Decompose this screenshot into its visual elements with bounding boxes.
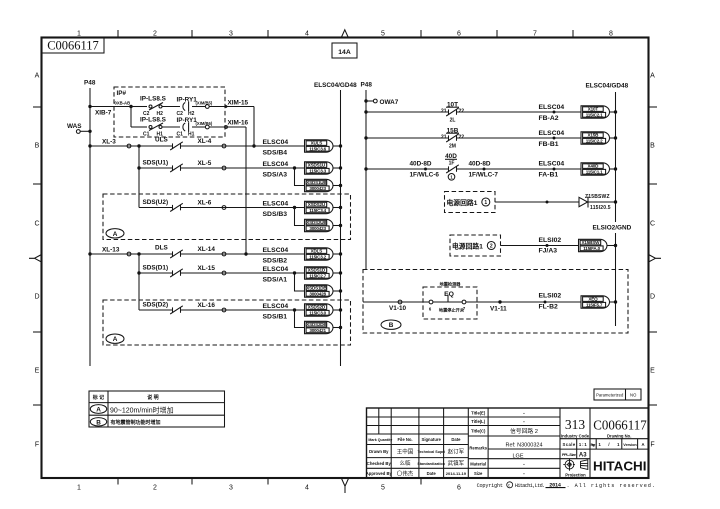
svg-text:XSDS2D: XSDS2D [308,305,326,310]
svg-text:IP-LS8.S: IP-LS8.S [140,96,167,103]
svg-text:5: 5 [381,31,385,38]
svg-text:ELSC04: ELSC04 [539,130,565,137]
svg-text:B: B [389,322,394,329]
svg-text:XULS: XULS [311,141,323,146]
svg-text:(XIM/B5): (XIM/B5) [196,101,213,106]
svg-text:ELSC04: ELSC04 [263,303,289,310]
svg-text:4: 4 [305,485,309,492]
svg-text:22: 22 [459,135,465,141]
wire flag XSDS1DB to bus [333,290,341,292]
wire junction column upper [138,146,140,208]
wire row SDS(U2)c [139,207,173,209]
svg-text:SDS(D2): SDS(D2) [143,302,169,309]
svg-text:SDS(U1): SDS(U1) [143,160,169,167]
connector flag XSDS2UB [305,219,333,231]
svg-text:0XB-AB: 0XB-AB [115,101,131,106]
svg-text:115IC2.2: 115IC2.2 [586,138,603,143]
svg-text:E: E [35,368,40,375]
wire flag XSDS1D to bus [333,272,341,274]
signatures [397,448,465,478]
svg-text:File No.: File No. [397,437,412,442]
title block revision header [368,437,461,442]
svg-text:3000423: 3000423 [309,226,326,231]
svg-text:Ref: N3000324: Ref: N3000324 [506,443,543,449]
svg-text:Drawing No.: Drawing No. [607,433,631,438]
svg-text:SDS/B4: SDS/B4 [263,150,288,157]
svg-text:14A: 14A [338,49,351,56]
column numbers bottom [77,485,461,492]
node label point 40D [553,168,556,171]
svg-text:Z15BSWZ: Z15BSWZ [585,194,610,200]
title block labels column [469,411,487,477]
contact EQ left [429,300,433,311]
svg-text:2: 2 [153,31,157,38]
dashed option box A (lower) [103,300,351,345]
svg-text:XL-15: XL-15 [198,265,216,272]
svg-text:FB-A2: FB-A2 [539,115,559,122]
centering marker right [649,255,662,263]
svg-text:2M: 2M [449,144,456,150]
svg-text:C0066117: C0066117 [47,39,99,53]
node row 15B at P48 [364,136,367,139]
svg-text:XL-5: XL-5 [198,160,212,167]
svg-text:Remarks: Remarks [469,446,487,451]
row letters left [34,73,39,449]
svg-text:C1: C1 [143,131,150,137]
svg-text:2L: 2L [450,118,456,124]
contact SDS(U1)c [172,165,174,170]
svg-text:XSDS1UB: XSDS1UB [306,180,327,185]
svg-text:电源回路1: 电源回路1 [447,198,478,207]
svg-text:5: 5 [381,485,385,492]
svg-text:6: 6 [457,485,461,492]
contact 10T with pins 21/22 [441,102,464,124]
svg-text:Date: Date [451,437,461,442]
svg-text:地震停止开关: 地震停止开关 [439,307,465,314]
node XIM-15 to ULS row [252,144,255,147]
svg-text:XIM-16: XIM-16 [228,119,249,126]
contact SDS(D2)c [172,307,174,312]
wire flag X40D to bus [610,168,616,170]
connector flag XSDS1UB [305,179,333,191]
option marker oval B [381,320,401,329]
copyright line [477,482,655,489]
svg-text:1: 1 [484,200,487,206]
svg-text:IP-RY1: IP-RY1 [177,97,198,104]
svg-text:XEQ: XEQ [588,297,598,302]
sheet border frame [42,38,649,479]
svg-text:7: 7 [533,31,537,38]
contact 40D 1F [445,153,459,173]
svg-text:Scale: Scale [563,442,576,447]
node IP box edge row1 [225,105,228,108]
svg-text:115IC3.2: 115IC3.2 [309,254,326,259]
node P48/XL-13 [88,252,91,255]
legend table [89,391,225,427]
legend row B marker [90,418,106,427]
svg-text:115IC2.7: 115IC2.7 [309,273,326,278]
svg-text:SDS/B1: SDS/B1 [263,314,288,321]
svg-text:X15BSW: X15BSW [582,240,601,245]
svg-text:ELSC04/GD48: ELSC04/GD48 [314,82,357,89]
svg-text:ELSC04: ELSC04 [263,139,289,146]
connector flag X10T [581,106,609,118]
svg-text:40D-8D: 40D-8D [469,161,491,168]
coil IP-RY1 lower (C1-H1) [177,117,198,137]
connector flag XDLS [305,248,334,260]
svg-text:Quantity: Quantity [378,438,393,442]
frame tick marks bottom [118,478,421,485]
wire flag XSDS2U to bus [333,207,341,209]
node WAS junction [88,130,91,133]
wire branch to XSDS2DB [295,310,305,328]
dashed option box B (earthquake circuit) [363,270,628,334]
svg-text:1: 1 [77,31,81,38]
diode Z15BSWZ [579,197,616,208]
wire row SDS(D2)c [139,309,173,311]
terminal XIM-15 [205,105,209,109]
svg-text:Copyright: Copyright [477,483,503,489]
frame tick marks top [118,30,573,38]
node label point 10T [553,111,556,114]
svg-text:标 记: 标 记 [92,394,104,401]
parameterized flag box [594,389,641,400]
svg-text:Size: Size [474,471,483,476]
svg-text:ELSI02: ELSI02 [539,293,562,300]
svg-text:Projection: Projection [565,472,586,477]
connector flag XSDS1DB [305,285,333,297]
svg-text:IP#: IP# [117,90,127,97]
svg-text:B: B [650,143,655,150]
svg-text:XSDS1D: XSDS1D [308,268,326,273]
wire XIM-15 drop [253,107,255,147]
wire row SDS(U1)c [139,167,173,169]
wire WAS to P48 [80,130,90,132]
title block values [506,411,543,478]
svg-text:C0066117: C0066117 [593,419,646,434]
connector flag XULS [305,140,333,152]
svg-text:C2: C2 [177,111,184,117]
svg-text:FL-B2: FL-B2 [539,304,558,311]
wire row 10T [366,111,449,113]
svg-text:A: A [35,73,40,80]
svg-text:V1-11: V1-11 [490,306,507,313]
title block grid [367,408,649,478]
node label point 15B [553,137,556,140]
svg-text:XSDS2DB: XSDS2DB [306,322,327,327]
svg-text:4: 4 [305,31,309,38]
wire branch to XSDS1DB [295,273,305,291]
svg-text:A: A [113,231,118,238]
circled ref 2 [487,242,495,250]
svg-text:Technical Suprt: Technical Suprt [418,450,446,454]
svg-text:Checked By: Checked By [367,461,392,466]
connector flag X15BSW [579,239,607,251]
svg-text:SDS(U2): SDS(U2) [143,199,169,206]
svg-text:XIM-15: XIM-15 [228,100,249,107]
svg-text:Drawn By: Drawn By [369,449,389,454]
svg-text:D: D [650,294,655,301]
svg-text:Mark: Mark [368,438,376,442]
wire IP row2 [131,126,147,128]
node row 10T at P48 [364,110,367,113]
svg-text:XIB-7: XIB-7 [95,110,112,117]
svg-text:Standardization: Standardization [417,462,445,466]
svg-text:SDS/B2: SDS/B2 [263,258,288,265]
svg-text:115IC3.0: 115IC3.0 [309,310,326,315]
scale page version row [563,442,645,447]
svg-text:2014-11-19: 2014-11-19 [446,471,467,476]
svg-text:ELSC04: ELSC04 [263,200,289,207]
sheet code box 14A [332,43,357,58]
node V1-11 [490,300,507,312]
wire IP row1 [131,106,147,108]
svg-text:22: 22 [459,109,465,115]
drawing number C0066117 [593,419,646,439]
svg-text:SDS/B3: SDS/B3 [263,211,288,218]
svg-text:ELSC04: ELSC04 [263,247,289,254]
svg-text:Approved By: Approved By [366,471,393,476]
svg-text:P48: P48 [361,82,373,89]
svg-text:V1-10: V1-10 [389,305,406,312]
wire row 40D [366,168,449,170]
svg-text:1:1: 1:1 [579,442,587,447]
wire branch to XSDS1UB [295,168,305,186]
svg-text:Hitachi,Ltd.: Hitachi,Ltd. [515,483,545,489]
svg-text:ELSC04: ELSC04 [539,104,565,111]
svg-text:〇伟杰: 〇伟杰 [397,469,414,477]
contact IP-LS8.S lower (C1-H1) [140,117,167,138]
wire junction column lower [138,254,140,310]
svg-text:3000421: 3000421 [309,328,326,333]
centering marker top [341,30,348,38]
wire left ELSC04/GD48 bus [340,90,342,366]
node in IP box row1 [129,105,132,108]
column numbers top [77,31,613,38]
svg-text:40D-8D: 40D-8D [410,161,432,168]
svg-text:XSDS2U: XSDS2U [308,202,326,207]
dashed box earthquake detector EQ [423,287,477,319]
industry code 313 [561,417,590,438]
svg-text:H1: H1 [188,131,195,137]
terminal XIM-16 [205,125,209,129]
svg-text:XSDS2UB: XSDS2UB [306,220,327,225]
node P48/XL-3 [88,144,91,147]
svg-text:Title(L): Title(L) [471,419,485,424]
svg-text:ELSC04: ELSC04 [539,161,565,168]
svg-text:有地震管制功能时增加: 有地震管制功能时增加 [111,419,161,426]
wire power circuit 1 to diode [495,201,579,203]
svg-text:ULS: ULS [155,137,169,144]
svg-text:E: E [650,368,655,375]
svg-text:ELSI02: ELSI02 [539,237,562,244]
svg-text:电源回路1: 电源回路1 [452,241,483,250]
svg-text:2: 2 [490,244,493,250]
wire flag X15BSW to bus [607,245,616,247]
svg-text:P48: P48 [84,80,96,87]
connector flag XEQ [581,296,610,308]
terminal OWA7 [364,99,398,106]
svg-text:(XIM/B6): (XIM/B6) [196,121,213,126]
dashed option box A (upper) [103,194,351,240]
wire row SDS(D1)c [139,272,173,274]
node XSDS1DB branch [293,271,296,274]
svg-text:NO: NO [630,393,637,398]
svg-text:OWA7: OWA7 [380,99,399,106]
contact SDS(D1)c [172,270,174,275]
svg-text:Signature: Signature [422,437,442,442]
legend row A marker [90,405,106,414]
svg-text:H2: H2 [188,111,195,117]
node SDS(D1) branch [137,271,140,274]
node XL junction col [137,144,140,147]
label 40D-8D / 1F/WLC-6 [410,161,440,179]
dashed box IP unit [114,87,225,137]
svg-text:6: 6 [457,31,461,38]
svg-text:Title(E): Title(E) [471,411,486,416]
title block staff rows [366,449,446,476]
node SDS(U1) branch [137,166,140,169]
svg-text:信号回路 2: 信号回路 2 [510,427,538,435]
box power circuit 1 (dashed) [445,192,496,213]
svg-text:1: 1 [77,485,81,492]
svg-text:Page: Page [591,443,596,447]
wire flag XSDS2UB to bus [333,225,341,227]
ppl size row [562,453,587,459]
svg-text:21: 21 [441,109,447,115]
svg-text:ELSC04: ELSC04 [263,266,289,273]
svg-text:8: 8 [609,31,613,38]
connector flag X15B [581,132,610,144]
svg-text:115IC3.6: 115IC3.6 [309,146,326,151]
svg-text:DLS: DLS [155,245,169,252]
svg-text:21: 21 [441,135,447,141]
node XSDS2UB branch [293,206,296,209]
svg-text:Material: Material [470,462,486,467]
svg-text:XL-16: XL-16 [198,302,216,309]
svg-text:115IC3.4: 115IC3.4 [309,208,326,213]
svg-text:F: F [650,442,654,449]
option marker oval A upper [106,229,124,238]
svg-text:HITACHI: HITACHI [593,458,647,473]
row letters right [650,73,655,449]
node XIM-16 to DLS row [244,252,247,255]
node XSDS2DB branch [293,308,296,311]
wire XIM-16 drop [245,127,247,254]
svg-text:LGE: LGE [512,453,523,459]
connector flag XSDS1D [305,267,334,279]
wire flag XSDS2D to bus [333,309,341,311]
svg-text:FB-B1: FB-B1 [539,141,559,148]
wire flag X10T to bus [610,111,616,113]
wire: left P48 vertical bus [89,88,91,366]
svg-text:A: A [113,336,118,343]
wire flag XSDS1U to bus [333,167,341,169]
terminal V1-10 [389,300,406,312]
svg-text:说 明: 说 明 [147,394,158,401]
terminal IP box edge row2 [225,126,228,129]
svg-text:王中国: 王中国 [397,448,414,456]
frame tick marks left [33,107,42,405]
svg-text:XSDS1DB: XSDS1DB [306,286,327,291]
svg-text:SDS/A1: SDS/A1 [263,277,288,284]
svg-text:115IC1.1: 115IC1.1 [586,169,603,174]
svg-text:B: B [96,419,101,426]
svg-text:PPL-Size: PPL-Size [562,453,576,457]
svg-text:X10T: X10T [588,107,599,112]
projection symbols [563,459,588,471]
svg-text:Version: Version [623,443,637,447]
contact 15B with pins 21/22 [441,128,464,150]
drawing number box top-left [42,38,105,54]
svg-text:IP-RY1: IP-RY1 [177,117,198,124]
svg-text:115IC2.1: 115IC2.1 [586,112,603,117]
wire flag XEQ to bus [610,301,616,303]
connector flag XSDS2D [305,304,334,316]
frame tick marks right [649,107,658,405]
svg-text:. All rights reserved.: . All rights reserved. [567,483,656,489]
wire right ELSI02/GND bus [615,233,617,326]
svg-text:90~120m/min时增加: 90~120m/min时增加 [110,405,174,414]
svg-text:1F/WLC-6: 1F/WLC-6 [410,172,440,179]
wire right P48 vertical [365,90,367,270]
node XL-13 junction col [137,252,140,255]
svg-text:XDLS: XDLS [311,249,323,254]
connector flag XSDS2DB [305,321,334,333]
contact EQ actuator tick [447,295,449,302]
svg-text:SDS(D1): SDS(D1) [143,265,169,272]
svg-text:FA-B1: FA-B1 [539,172,559,179]
box power circuit 2 (dashed) [450,235,501,256]
wire EQ row [363,301,429,303]
contact IP-LS8.S upper (C2-H2) [140,96,167,117]
wire XIB-7 [90,106,131,108]
wire flag XDLS to bus [333,253,341,255]
svg-text:B: B [35,143,40,150]
connector flag X40D [581,163,610,175]
label 40D-8D / 1F/WLC-7 [469,161,499,179]
svg-text:3000423: 3000423 [309,186,326,191]
wire flag XULS to bus [333,145,341,147]
node row 40D at P48 [364,167,367,170]
node XSDS1UB branch [293,166,296,169]
svg-text:Title(C): Title(C) [471,429,486,434]
svg-text:地震检测器: 地震检测器 [440,281,462,288]
svg-text:C1: C1 [177,131,184,137]
svg-text:X15B: X15B [588,133,600,138]
svg-text:Date: Date [427,471,437,476]
option marker oval A lower [106,334,124,343]
svg-text:XL-13: XL-13 [102,247,120,254]
svg-text:么临: 么临 [399,459,411,467]
svg-text:武镇军: 武镇军 [448,459,465,467]
contact SDS(U2)c [172,205,174,210]
svg-text:XSDS1U: XSDS1U [308,163,326,168]
svg-text:3: 3 [229,485,233,492]
svg-text:Parameterized: Parameterized [596,393,624,398]
svg-text:D: D [34,294,39,301]
wire power circuit 2 to flag [501,245,579,247]
svg-text:SDS/A3: SDS/A3 [263,172,288,179]
centering marker bottom [341,478,348,493]
wire row ULS [90,145,173,147]
svg-text:A3: A3 [579,453,587,459]
wire row 15B [366,137,449,139]
svg-text:A: A [96,407,101,414]
svg-text:115IFA.0: 115IFA.0 [583,246,600,251]
svg-text:ELSIO2/GND: ELSIO2/GND [593,225,632,232]
svg-text:313: 313 [565,417,586,432]
